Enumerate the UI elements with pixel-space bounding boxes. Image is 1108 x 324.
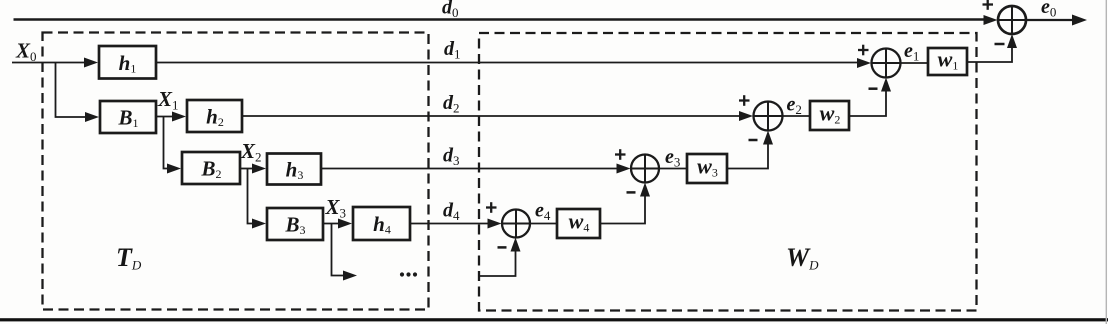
arrowhead up into e4: [511, 238, 521, 252]
arrowhead e0 output: [1072, 15, 1087, 26]
minus sign e3: [627, 191, 636, 194]
arrowhead into B1: [85, 112, 99, 122]
arrowhead up into e0: [1007, 34, 1017, 48]
wire B3 to h4: [323, 223, 340, 225]
wire X3 node down then right: [332, 224, 345, 276]
block h2: [187, 100, 242, 132]
arrowhead into e4 left: [488, 219, 502, 229]
wire row4 h4 to e4: [410, 223, 488, 225]
svg-text:e3: e3: [665, 146, 680, 170]
wire w3 feedback to e2: [727, 144, 768, 169]
wire row2 h2 to e2: [242, 115, 740, 117]
wire w4 feedback to e3: [600, 196, 645, 224]
svg-text:d0: d0: [442, 0, 459, 20]
svg-text:B2: B2: [200, 157, 221, 182]
arrowhead into B2: [167, 164, 181, 174]
arrowhead into B3: [252, 219, 266, 229]
wire d0 top line: [14, 18, 986, 21]
svg-text:e2: e2: [787, 94, 802, 118]
bottom rule: [0, 318, 1108, 321]
svg-text:w1: w1: [938, 47, 959, 73]
svg-text:X3: X3: [325, 195, 347, 221]
plus sign e0: [983, 3, 994, 5]
arrowhead lower branch right: [343, 271, 357, 281]
wire e3 to w3: [659, 168, 687, 170]
wire X0 input: [12, 62, 86, 64]
minus sign e0: [995, 43, 1005, 46]
arrowhead up into e1: [881, 78, 891, 92]
block w4: [557, 209, 600, 238]
svg-text:d3: d3: [443, 145, 460, 169]
summing junction e4: [502, 210, 530, 238]
wire e1 to w1: [901, 62, 929, 64]
plus sign e4: [486, 206, 497, 208]
minus sign e4: [498, 246, 507, 249]
svg-text:h1: h1: [119, 51, 137, 76]
arrowhead into h4: [338, 219, 352, 229]
wire B1 to h2: [156, 116, 174, 118]
block w1: [928, 48, 967, 75]
svg-text:e0: e0: [1041, 0, 1056, 20]
plus sign e2: [739, 99, 750, 101]
svg-text:TD: TD: [116, 243, 142, 273]
svg-text:d2: d2: [443, 92, 460, 116]
wire branch down from X0 node: [56, 63, 87, 118]
svg-text:w2: w2: [820, 101, 841, 127]
arrowhead into h3: [252, 164, 266, 174]
plus sign e3: [615, 153, 626, 155]
wire row1 h1 to e1: [156, 62, 858, 64]
wire e0 output: [1026, 19, 1074, 21]
svg-text:B3: B3: [284, 213, 305, 238]
dashed box W_D: [479, 33, 977, 311]
plus sign e1: [858, 49, 869, 51]
block h3: [267, 154, 321, 185]
summing junction e2: [754, 102, 783, 131]
svg-text:X1: X1: [157, 87, 179, 113]
wire e2 to w2: [783, 115, 811, 117]
arrowhead up into e3: [640, 183, 650, 197]
svg-text:w4: w4: [569, 209, 590, 235]
summing junction e1: [872, 49, 901, 78]
svg-text:WD: WD: [786, 243, 819, 273]
ellipsis lower branch: [400, 272, 404, 276]
arrowhead into h2: [172, 112, 186, 122]
arrowhead into e3 left: [617, 164, 631, 174]
svg-text:X2: X2: [240, 139, 262, 165]
dashed box T_D: [43, 33, 429, 310]
svg-text:X0: X0: [15, 39, 37, 65]
svg-text:h3: h3: [286, 158, 304, 183]
block h1: [99, 46, 156, 79]
summing junction e3: [631, 155, 659, 183]
wire row3 h3 to e3: [321, 168, 617, 170]
summing junction e0: [998, 6, 1026, 34]
wire feedback into e4 minus: [479, 251, 516, 276]
wire X1 node down to B2: [164, 117, 170, 169]
wire w2 feedback to e1: [849, 91, 886, 116]
svg-text:e4: e4: [535, 200, 551, 224]
arrowhead into e1 left: [857, 58, 871, 68]
minus sign e2: [749, 139, 758, 142]
block B2: [182, 152, 240, 184]
wire w1 feedback to e0: [967, 47, 1012, 62]
block w3: [687, 154, 727, 183]
svg-text:h4: h4: [373, 212, 391, 237]
right edge scan artifact: [1105, 0, 1107, 324]
svg-text:d4: d4: [443, 200, 460, 224]
svg-text:w3: w3: [697, 154, 718, 180]
block B3: [267, 208, 323, 240]
wire B2 to h3: [240, 168, 253, 170]
wire e4 to w4: [530, 223, 557, 225]
arrowhead into e2 left: [739, 111, 753, 121]
block h4: [353, 207, 410, 240]
svg-text:B1: B1: [117, 106, 138, 131]
block w2: [810, 101, 849, 130]
block B1: [100, 101, 156, 133]
svg-text:h2: h2: [206, 105, 224, 130]
wire X2 node down to B3: [248, 169, 255, 224]
arrowhead into h1: [84, 58, 98, 68]
minus sign e1: [869, 87, 878, 90]
svg-text:e1: e1: [904, 40, 919, 64]
arrowhead up into e2: [763, 131, 773, 145]
svg-text:d1: d1: [444, 38, 461, 62]
arrowhead into e0 left: [984, 15, 998, 25]
